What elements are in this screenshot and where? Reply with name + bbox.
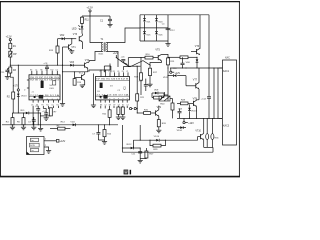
wire (128, 57, 145, 66)
svg-text:VT1: VT1 (71, 47, 76, 49)
wire (167, 65, 168, 101)
svg-text:In-: In- (32, 150, 35, 152)
wire (161, 54, 168, 58)
wire (165, 92, 173, 103)
lamp HL1 (206, 118, 209, 147)
wire (136, 66, 138, 94)
svg-text:+12V: +12V (113, 53, 119, 55)
diode VD5 (155, 19, 163, 24)
wire (151, 112, 156, 114)
svg-text:C7: C7 (108, 71, 110, 73)
node +12V terminal 5 (56, 140, 65, 144)
wire (104, 66, 111, 72)
svg-text:+12V: +12V (175, 73, 181, 75)
diode VD6 (143, 28, 151, 41)
wire (122, 125, 213, 152)
transistor VT4 (73, 60, 90, 68)
wire (0, 0, 1, 1)
wire (10, 65, 70, 66)
wire (10, 73, 13, 92)
svg-text:VD13: VD13 (21, 96, 27, 98)
svg-text:RP: RP (13, 54, 17, 56)
svg-text:VD12: VD12 (126, 144, 132, 146)
capacitor C9 (138, 81, 147, 91)
wire (158, 116, 160, 119)
wire (185, 76, 187, 86)
svg-text:IC2: IC2 (123, 86, 126, 90)
op-amp IC2 (96, 70, 131, 106)
wire (116, 58, 128, 67)
wire (145, 79, 147, 82)
svg-text:VT6: VT6 (195, 46, 200, 48)
svg-text:+C12: +C12 (170, 30, 176, 32)
wire (82, 81, 84, 85)
regulator U3 DC IN (27, 137, 45, 155)
ground (102, 140, 107, 144)
wire (98, 139, 104, 141)
resistor R27 (145, 148, 154, 159)
wire (81, 44, 83, 49)
label R14 (61, 122, 66, 124)
svg-text:+12V: +12V (188, 122, 194, 125)
svg-text:XAC: XAC (225, 56, 230, 59)
wire (172, 110, 174, 118)
resistor R31 (144, 110, 151, 115)
resistor R11 (81, 16, 90, 23)
diode VD14 (177, 126, 186, 132)
ground (5, 77, 10, 80)
svg-text:VT2: VT2 (79, 72, 84, 74)
svg-text:o: o (47, 98, 48, 100)
svg-text:C6: C6 (117, 71, 119, 73)
svg-text:R5: R5 (122, 71, 124, 73)
diode VD2 (58, 35, 65, 40)
wire (196, 107, 198, 119)
node +12V terminal 3 (170, 68, 181, 75)
wire (165, 137, 197, 141)
lamp HL2 (211, 118, 219, 147)
wire (89, 69, 110, 71)
svg-text:VT3: VT3 (73, 34, 78, 36)
resistor R23b (154, 96, 162, 99)
resistor R2 (7, 92, 15, 99)
diode VD4 (143, 19, 151, 24)
node +12V supply terminal 2 (86, 6, 93, 16)
svg-text:R11: R11 (85, 20, 90, 22)
svg-text:C8: C8 (45, 69, 47, 71)
capacitor C12 (162, 23, 176, 32)
transistor VT7 (186, 68, 199, 89)
wire (44, 145, 49, 150)
svg-text:o: o (122, 98, 123, 100)
connector pin KAC3 (219, 118, 230, 127)
wire (213, 68, 215, 118)
wire (140, 27, 168, 29)
node figure caption (124, 170, 132, 175)
svg-text:VD14: VD14 (177, 130, 183, 132)
diode VD10 (149, 136, 166, 141)
connector XAC (223, 56, 237, 145)
svg-text:C1: C1 (126, 71, 128, 73)
wire (212, 147, 214, 152)
wire (90, 16, 103, 43)
ground (107, 24, 112, 27)
transistor VT9 (156, 106, 162, 117)
svg-text:KAC1: KAC1 (223, 70, 230, 73)
svg-text:VD2: VD2 (60, 35, 65, 37)
ground (60, 104, 65, 107)
wire (128, 66, 141, 67)
wire (188, 57, 198, 58)
ground (120, 117, 125, 120)
ground (80, 85, 85, 88)
node contact S1 (130, 108, 134, 110)
wire (0, 0, 1, 1)
wire (2, 124, 118, 125)
ground (91, 74, 96, 108)
wire (208, 68, 210, 97)
resistor R10 (73, 79, 82, 86)
relay K1 (159, 96, 170, 106)
capacitor C11b (131, 147, 142, 158)
ground (38, 125, 43, 131)
resistor R22 (102, 106, 111, 125)
ground (116, 117, 121, 120)
wire (33, 106, 59, 126)
svg-text:+12V: +12V (86, 6, 93, 10)
wire (0, 0, 1, 1)
svg-text:+12V: +12V (6, 35, 12, 38)
transistor VT8 (188, 97, 198, 106)
wire (71, 39, 73, 44)
wire (109, 64, 111, 71)
wire (140, 158, 146, 160)
wire (137, 101, 138, 109)
node +12V terminal 4 (183, 118, 194, 125)
wire (9, 49, 11, 52)
diode VD11 (163, 74, 186, 79)
svg-text:C3: C3 (56, 69, 58, 71)
wire (203, 118, 205, 133)
resistor R23 (117, 106, 120, 117)
resistor R29 (150, 140, 165, 151)
capacitor C6 (121, 57, 128, 65)
svg-text:o: o (37, 98, 38, 100)
capacitor C5 (35, 106, 40, 126)
capacitor C14 (201, 97, 211, 119)
wire (158, 127, 160, 130)
wire (89, 52, 103, 61)
wire (208, 15, 210, 68)
wire (13, 112, 26, 114)
diode VD9 (152, 90, 162, 95)
wire (152, 93, 168, 98)
diode VD4b (70, 122, 75, 127)
wire (150, 61, 161, 68)
wire (170, 67, 223, 68)
diode VD12 (122, 144, 140, 149)
wire (140, 14, 209, 16)
svg-text:C2: C2 (35, 69, 37, 71)
svg-text:R9: R9 (30, 69, 32, 71)
capacitor C13 (178, 108, 183, 118)
svg-text:VD3: VD3 (70, 62, 75, 64)
wire (199, 15, 201, 49)
wire (82, 15, 110, 16)
ground (165, 41, 170, 46)
wire (0, 0, 1, 1)
svg-text:2.1: 2.1 (32, 91, 34, 93)
svg-text:l7 l6 l5 l4 l3 l2 ll: l7 l6 l5 l4 l3 l2 ll (96, 79, 129, 81)
wire (133, 140, 150, 141)
svg-text:20 2l 2Z 2J 2E 2G: 20 2l 2Z 2J 2E 2G (30, 77, 60, 79)
wire (0, 0, 1, 1)
capacitor C7 (92, 125, 100, 140)
capacitor C8 (43, 63, 49, 75)
ground (156, 130, 161, 133)
transistor VT10 (195, 131, 203, 140)
svg-text:R12: R12 (50, 69, 53, 71)
capacitor C11 (1, 69, 10, 77)
wire (203, 140, 205, 148)
node +12V label (113, 53, 119, 58)
resistor R21 (136, 94, 145, 101)
wire (217, 68, 219, 118)
resistor R19 (167, 58, 176, 65)
wire (62, 68, 88, 72)
resistor R26 (157, 120, 166, 127)
svg-text:o: o (109, 98, 110, 100)
wire (131, 61, 151, 67)
resistor R28 (177, 100, 188, 105)
resistor RP1 (8, 51, 17, 57)
svg-text:+17V: +17V (13, 85, 19, 87)
wire (101, 106, 127, 109)
svg-text:o: o (118, 98, 119, 100)
wire (124, 67, 131, 70)
svg-text:KAC3: KAC3 (223, 125, 230, 128)
wire (10, 57, 11, 67)
wire (57, 39, 59, 46)
wire (12, 99, 13, 118)
resistor R13 (49, 46, 59, 53)
diode VD3b (70, 62, 75, 67)
wire (199, 48, 201, 50)
node +12V supply terminal (6, 35, 12, 43)
svg-text:+12V: +12V (60, 140, 66, 143)
connector pin KAC1 (219, 68, 230, 73)
transformer T1 (99, 38, 108, 55)
wire (65, 38, 76, 39)
resistor R33 (180, 56, 188, 59)
svg-text:VT7: VT7 (193, 80, 198, 82)
node +17V test point (13, 65, 19, 94)
svg-text:o: o (31, 98, 32, 100)
wire (177, 118, 222, 119)
svg-text:5G: 5G (49, 85, 52, 87)
transistor VT3 (73, 34, 83, 44)
wire (137, 112, 144, 113)
svg-text:o: o (52, 98, 53, 100)
op-amp IC1 (24, 69, 60, 106)
wire (139, 125, 141, 140)
svg-text:VT5: VT5 (155, 48, 160, 51)
resistor R18 (134, 73, 142, 80)
wire (204, 146, 213, 148)
wire (140, 80, 142, 95)
resistor R6 (50, 126, 70, 130)
resistor R1 (9, 43, 17, 48)
diode VD13 (188, 104, 197, 118)
svg-text:o: o (100, 98, 101, 100)
wire (106, 28, 140, 43)
wire (140, 15, 168, 41)
svg-text:o: o (42, 98, 43, 100)
wire (84, 72, 86, 74)
svg-text:o: o (127, 98, 128, 100)
transistor VT1 (63, 44, 77, 50)
LED LED1 (72, 23, 84, 33)
wire (132, 140, 134, 148)
resistor R15 (103, 125, 112, 140)
wire (40, 112, 51, 124)
wire (71, 49, 73, 51)
diode VD13b (17, 94, 27, 114)
ground (46, 151, 51, 154)
diode VD9b (20, 110, 40, 115)
ground (44, 118, 49, 121)
resistor R3 (9, 67, 17, 73)
resistor R24 (121, 106, 124, 117)
svg-text:DCIN: DCIN (30, 145, 35, 147)
capacitor C3 (28, 117, 36, 130)
resistor R4 (6, 118, 15, 130)
svg-text:o: o (114, 98, 115, 100)
transistor VT5 (153, 48, 161, 60)
svg-text:VD11: VD11 (163, 77, 169, 79)
resistor R25 (171, 103, 174, 110)
capacitor C1 (100, 16, 112, 24)
wire (198, 89, 200, 100)
capacitor C10 (173, 57, 185, 70)
svg-text:VT10: VT10 (195, 131, 201, 133)
ground (69, 51, 74, 54)
wire (88, 61, 89, 63)
svg-text:LED: LED (72, 27, 77, 30)
svg-text:o: o (57, 98, 58, 100)
diode VD7 (155, 28, 163, 41)
wire (106, 52, 118, 68)
ground (138, 159, 143, 163)
ground (147, 84, 152, 87)
transistor VT2 (75, 72, 85, 81)
wire (197, 99, 199, 101)
svg-text:5G: 5G (110, 85, 113, 87)
transistor VT6 (191, 46, 200, 55)
svg-text:C4: C4 (99, 71, 101, 73)
resistor R16 (145, 54, 153, 59)
wire (168, 56, 180, 58)
diode VD8 (186, 57, 199, 68)
svg-text:VD10: VD10 (154, 136, 160, 138)
wire (62, 47, 63, 103)
wire (149, 76, 151, 84)
svg-text:R3: R3 (113, 71, 115, 73)
capacitor C6b (42, 111, 48, 118)
resistor R5 (17, 112, 26, 129)
wire (44, 138, 56, 140)
resistor R17 (149, 68, 158, 75)
svg-text:+C14: +C14 (201, 99, 207, 101)
wire (57, 53, 59, 65)
node contact S2 (134, 108, 137, 114)
svg-text:R8: R8 (40, 69, 42, 71)
wire (140, 58, 142, 73)
resistor R7 (49, 108, 57, 116)
wire (0, 0, 1, 1)
